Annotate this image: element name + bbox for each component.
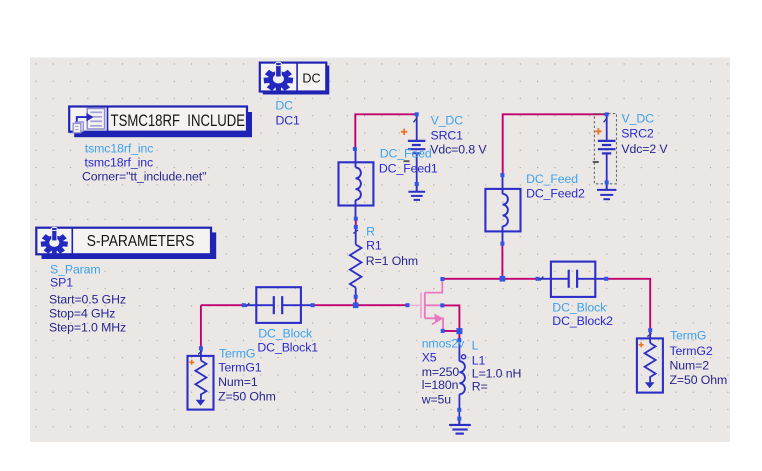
node nmos gate (406, 303, 410, 307)
wire nmos source to junction (443, 330, 460, 332)
TermG2 arrow (645, 382, 655, 388)
svg-text:Vdc=2 V: Vdc=2 V (621, 142, 668, 156)
svg-text:tsmc18rf_inc: tsmc18rf_inc (85, 156, 154, 170)
wire L1 pin2 to ground stub (458, 410, 460, 419)
svg-text:DC_Feed: DC_Feed (380, 146, 432, 160)
TermG2 plus sign (639, 342, 644, 347)
wire SRC1 top horizontal (DC_Feed1 to SRC1) (355, 114, 416, 149)
resistor R1 (350, 228, 362, 297)
wire gate net: corner to DC_Block1 pin1 (201, 304, 244, 306)
SRC2 selection box (dashed) (594, 114, 616, 184)
svg-text:DC_Block: DC_Block (258, 326, 313, 340)
svg-text:S-PARAMETERS: S-PARAMETERS (87, 233, 195, 250)
wire DC_Feed2 bottom to drain net (501, 244, 503, 279)
svg-text:w=5u: w=5u (421, 393, 452, 407)
svg-text:Corner="tt_include.net": Corner="tt_include.net" (82, 169, 206, 183)
svg-text:L=1.0 nH: L=1.0 nH (472, 367, 521, 381)
svg-text:nmos2v: nmos2v (422, 337, 465, 351)
svg-text:DC_Feed: DC_Feed (526, 172, 578, 186)
wire DC_Feed2 top to SRC2 (503, 114, 607, 175)
node SRC1 pin- (ground) (415, 182, 419, 186)
node DC_Block1 pin2 (311, 303, 315, 307)
svg-text:Start=0.5 GHz: Start=0.5 GHz (49, 293, 126, 307)
terminator TermG1 (188, 350, 214, 410)
svg-text:DC: DC (302, 70, 321, 85)
svg-text:TermG1: TermG1 (218, 361, 261, 375)
node nmos source (441, 329, 445, 333)
nmos X5 bulk arrow head (434, 314, 443, 323)
wire gate net: DC_Block1 pin2 to nmos gate (313, 304, 408, 306)
TermG2 pin tick (647, 333, 651, 337)
R1 pin1 tick (353, 230, 358, 233)
V_DC source SRC2 (598, 115, 616, 182)
node TermG1 pin1 (199, 346, 203, 350)
TSMC include document icon (73, 108, 104, 132)
SRC1 plus sign (401, 129, 407, 135)
capacitor DC_Block2 (538, 262, 605, 297)
node DC_Block2 pin1 (536, 277, 540, 281)
svg-text:DC_Feed1: DC_Feed1 (379, 161, 438, 175)
svg-text:DC1: DC1 (276, 113, 301, 127)
svg-text:R=1 Ohm: R=1 Ohm (366, 254, 418, 268)
svg-text:TermG: TermG (219, 347, 255, 361)
junction R1/gate net (353, 303, 359, 309)
wire drain net horizontal (nmos drain to DC_Block2 pin1) (443, 278, 538, 280)
SRC1 pin1 tick (414, 118, 418, 123)
svg-text:R=: R= (472, 379, 488, 393)
svg-text:Z=50 Ohm: Z=50 Ohm (670, 373, 728, 387)
schematic canvas background (30, 58, 730, 443)
node L1 pin2 (457, 408, 461, 412)
SRC2 plus sign (595, 128, 601, 134)
DC simulation controller title box (260, 63, 330, 95)
TSMC include icon arrow (77, 117, 88, 121)
svg-text:Step=1.0 MHz: Step=1.0 MHz (49, 321, 126, 335)
node squares (pins and junctions) (199, 112, 652, 420)
SRC2 pin1 tick (604, 118, 608, 123)
svg-text:DC_Block2: DC_Block2 (552, 314, 613, 328)
inductor DC_Feed1 (339, 150, 374, 219)
node SRC2 pin- (ground) (605, 180, 609, 184)
SRC2 minus sign (593, 161, 599, 163)
svg-text:L: L (472, 339, 479, 353)
svg-text:X5: X5 (422, 351, 437, 365)
svg-text:Num=2: Num=2 (670, 358, 710, 372)
node nmos bulk (440, 303, 444, 307)
SRC1 minus sign (404, 160, 410, 162)
svg-text:V_DC: V_DC (622, 112, 655, 126)
V_DC source SRC1 (408, 115, 426, 183)
ground under SRC1 (408, 185, 425, 200)
svg-text:DC_Block: DC_Block (552, 300, 607, 314)
ground under L1 (449, 419, 471, 434)
DC_Block2 pin1 tick (540, 277, 543, 281)
svg-text:m=250: m=250 (422, 365, 460, 379)
svg-text:R: R (366, 225, 375, 239)
svg-text:tsmc18rf_inc: tsmc18rf_inc (85, 142, 154, 156)
node DC_Feed2 pin1 (500, 173, 504, 177)
node R1 pin1 (354, 225, 358, 229)
wire nmos bulk to source junction (442, 305, 459, 331)
node DC_Block2 pin2 (604, 277, 608, 281)
node L1 pin1 (457, 338, 461, 342)
wire R1 bottom to gate-net junction (355, 297, 357, 305)
TSMC18RF INCLUDE title box (69, 107, 252, 138)
transistor nmos2v X5 (selected, pink) (409, 280, 443, 330)
inductor DC_Feed2 (485, 176, 520, 243)
TermG1 pin tick (198, 351, 202, 355)
svg-text:DC_Block1: DC_Block1 (257, 340, 318, 354)
node TermG2 pin1 (648, 328, 652, 332)
node DC_Feed1 pin1 (353, 147, 357, 151)
svg-text:TSMC18RF INCLUDE: TSMC18RF INCLUDE (111, 111, 246, 130)
svg-text:L1: L1 (472, 353, 486, 367)
wire DC_Feed1 bottom to R1 top (355, 219, 357, 227)
node DC_Feed1 pin2 (354, 217, 358, 221)
node SRC2 pin+ (605, 112, 609, 116)
terminator TermG2 (637, 332, 663, 393)
svg-text:Vdc=0.8 V: Vdc=0.8 V (430, 143, 487, 157)
wire TermG1 feed vertical (200, 305, 202, 348)
svg-text:l=180n: l=180n (422, 378, 459, 392)
svg-text:Z=50 Ohm: Z=50 Ohm (218, 389, 276, 403)
svg-text:SRC2: SRC2 (621, 127, 654, 141)
ground under SRC2 (597, 184, 616, 200)
svg-text:SRC1: SRC1 (431, 128, 464, 142)
svg-text:TermG: TermG (670, 329, 706, 343)
svg-text:Stop=4 GHz: Stop=4 GHz (49, 307, 115, 321)
node DC_Block1 pin1 (242, 303, 246, 307)
svg-text:TermG2: TermG2 (670, 344, 713, 358)
junction source/bulk/L1 (456, 328, 462, 334)
svg-text:R1: R1 (366, 239, 382, 253)
node ground3 top (457, 417, 461, 421)
TermG1 arrow (196, 400, 206, 406)
capacitor DC_Block1 (245, 287, 312, 323)
TermG1 plus sign (189, 360, 194, 365)
svg-text:DC_Feed2: DC_Feed2 (526, 187, 585, 201)
S-PARAMETERS gear icon (41, 227, 68, 254)
S-PARAMETERS simulation title box (36, 228, 216, 259)
junction DC_Feed2/drain net (500, 276, 506, 282)
svg-text:SP1: SP1 (50, 275, 73, 289)
DC_Block1 pin1 tick (246, 303, 249, 307)
node SRC1 pin+ (415, 112, 419, 116)
node R1 pin2 (354, 295, 358, 299)
DC controller gear icon (264, 62, 294, 91)
inductor L1 (459, 341, 465, 410)
svg-text:V_DC: V_DC (431, 113, 464, 127)
wire junction to L1 pin1 (458, 331, 460, 340)
svg-text:Num=1: Num=1 (218, 375, 258, 389)
svg-text:DC: DC (275, 98, 293, 112)
node nmos drain (440, 277, 444, 281)
wire DC_Block2 pin2 to TermG2 (606, 279, 650, 330)
node DC_Feed2 pin2 (500, 242, 504, 246)
